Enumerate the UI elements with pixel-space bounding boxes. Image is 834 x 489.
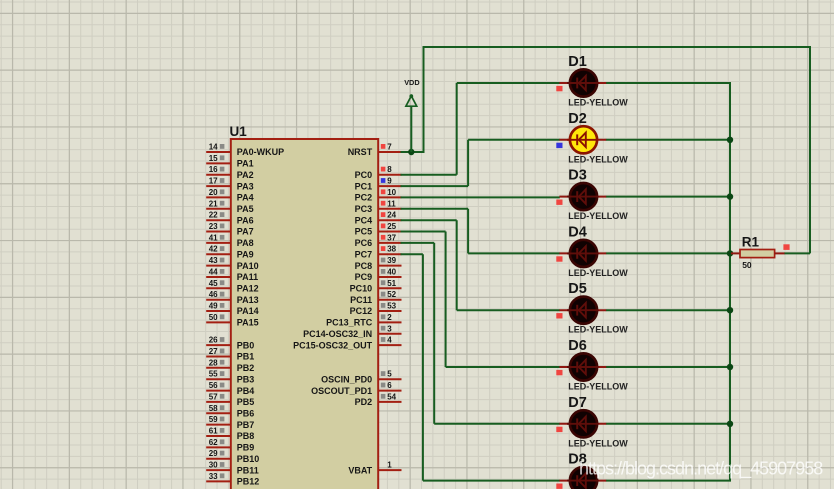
pin PA3 (17) [206,177,253,192]
svg-text:23: 23 [209,222,218,231]
pin PB1 (27) [206,347,254,362]
label R1 [742,235,760,250]
logic-state square D5 [556,313,562,318]
wire D8 to bus [606,480,731,482]
label D7 [568,395,587,411]
svg-text:PC3: PC3 [355,204,373,214]
svg-text:59: 59 [209,415,218,424]
pin PC1 (9) [355,177,402,192]
label D8 [568,452,587,468]
svg-text:PC15-OSC32_OUT: PC15-OSC32_OUT [293,340,373,350]
svg-text:LED-YELLOW: LED-YELLOW [568,154,628,164]
label D5 [568,281,587,297]
svg-text:45: 45 [209,279,218,288]
pin PC3 (11) [355,199,402,214]
svg-text:PB5: PB5 [237,397,255,407]
svg-text:PC5: PC5 [355,227,373,237]
svg-text:PA3: PA3 [237,181,254,191]
wire VDD net up right side: vertical x=423.5 [423,47,425,153]
pin PB8 (61) [206,427,254,442]
pin PA15 (50) [206,313,258,328]
svg-text:PA0-WKUP: PA0-WKUP [237,147,284,157]
pin OSCIN_PD0 (5) [321,370,401,385]
svg-text:VBAT: VBAT [348,465,372,475]
power symbol VDD [404,78,419,106]
svg-text:https://blog.csdn.net/qq_45907: https://blog.csdn.net/qq_45907958 [579,459,823,480]
svg-text:21: 21 [209,199,218,208]
svg-text:PB6: PB6 [237,409,255,419]
pin PC13_RTC (2) [326,313,401,328]
wire VDD net top horizontal [423,46,811,48]
label D2 [568,111,587,127]
svg-text:8: 8 [387,165,392,174]
svg-text:37: 37 [387,233,396,242]
label D6 [568,338,587,354]
svg-text:PC6: PC6 [355,238,373,248]
svg-text:49: 49 [209,302,218,311]
wire PC2 to D3 [401,196,560,198]
pin PA12 (45) [206,279,258,294]
svg-text:33: 33 [209,472,218,481]
pin PC0 (8) [355,165,402,180]
svg-text:PA1: PA1 [237,159,254,169]
svg-text:PC9: PC9 [355,272,373,282]
junction bus D5 [727,307,733,313]
svg-text:14: 14 [209,143,218,152]
pin PA8 (41) [206,233,253,248]
pin PB7 (59) [206,415,254,430]
pin PC9 (40) [355,268,402,283]
wire NRST pin7 to VDD corner [401,151,424,153]
junction bus D3 [727,193,733,199]
wire bus to R1 left lead [731,252,740,254]
wire PC0 to D1 [401,83,560,175]
svg-text:PB10: PB10 [237,454,260,464]
logic-state square D4 [556,256,562,261]
svg-text:NRST: NRST [348,147,373,157]
svg-text:PC1: PC1 [355,181,373,191]
LED D7 [559,410,606,437]
pin PC14-OSC32_IN (3) [303,324,401,339]
svg-text:50: 50 [209,313,218,322]
logic-state square R1 [783,244,789,250]
svg-text:R1: R1 [742,235,760,250]
LED D6 [559,353,606,380]
svg-text:LED-YELLOW: LED-YELLOW [568,98,628,108]
svg-text:PB7: PB7 [237,420,255,430]
label LED-YELLOW (D3) [568,211,628,221]
svg-text:PB8: PB8 [237,431,255,441]
svg-text:3: 3 [387,324,392,333]
svg-text:PC12: PC12 [350,306,373,316]
logic-state square D1 [556,86,562,91]
svg-text:PB4: PB4 [237,386,255,396]
watermark [579,459,823,480]
pin PA5 (21) [206,199,253,214]
pin PC15-OSC32_OUT (4) [293,336,401,351]
svg-text:54: 54 [387,392,396,401]
svg-text:57: 57 [209,392,218,401]
svg-text:38: 38 [387,245,396,254]
pin PB12 (33) [206,472,259,487]
wire junction up to VDD arrow [410,106,412,152]
LED D3 [559,183,606,210]
svg-text:4: 4 [387,336,392,345]
svg-text:PB1: PB1 [237,352,255,362]
svg-text:PA8: PA8 [237,238,254,248]
pin PC5 (25) [355,222,402,237]
svg-text:LED-YELLOW: LED-YELLOW [568,325,628,335]
svg-text:29: 29 [209,449,218,458]
svg-text:11: 11 [387,199,396,208]
svg-text:PA14: PA14 [237,306,259,316]
label LED-YELLOW (D1) [568,98,628,108]
pin PA2 (16) [206,165,253,180]
LED D8 [559,467,606,489]
svg-text:9: 9 [387,177,392,186]
wire D3 to bus [606,196,731,198]
svg-text:58: 58 [209,404,218,413]
svg-text:51: 51 [387,279,396,288]
svg-text:PB0: PB0 [237,340,255,350]
svg-text:PC13_RTC: PC13_RTC [326,318,373,328]
pin PC12 (53) [350,302,402,317]
pin PA10 (43) [206,256,258,271]
svg-text:15: 15 [209,154,218,163]
pin PC8 (39) [355,256,402,271]
svg-text:D2: D2 [568,111,587,127]
pin PA0-WKUP (14) [206,143,284,158]
wire D1 to bus [606,82,731,84]
pin PB2 (28) [206,358,254,373]
wire VDD net right vertical down to R1 [809,46,811,253]
svg-text:10: 10 [387,188,396,197]
svg-text:OSCOUT_PD1: OSCOUT_PD1 [311,386,372,396]
pin PA4 (20) [206,188,253,203]
svg-text:52: 52 [387,290,396,299]
svg-text:LED-YELLOW: LED-YELLOW [568,438,628,448]
value 50 [742,260,752,270]
pin PB9 (62) [206,438,254,453]
junction bus D7 [727,421,733,427]
svg-text:LED-YELLOW: LED-YELLOW [568,382,628,392]
svg-text:40: 40 [387,268,396,277]
pin PA1 (15) [206,154,253,169]
wire D4 to bus [606,252,731,254]
svg-text:53: 53 [387,302,396,311]
svg-text:D7: D7 [568,395,587,411]
label LED-YELLOW (D5) [568,325,628,335]
pin PC2 (10) [355,188,402,203]
wire D6 to bus [606,366,731,368]
svg-text:PC7: PC7 [355,249,373,259]
svg-text:20: 20 [209,188,218,197]
svg-text:PC8: PC8 [355,261,373,271]
svg-text:VDD: VDD [404,78,419,87]
svg-text:D1: D1 [568,54,587,70]
svg-text:44: 44 [209,268,218,277]
svg-text:46: 46 [209,290,218,299]
svg-text:PB9: PB9 [237,443,255,453]
wire PC1 to D2 [401,140,560,186]
svg-text:PA13: PA13 [237,295,259,305]
svg-text:55: 55 [209,370,218,379]
logic-state square D7 [556,427,562,432]
svg-text:27: 27 [209,347,218,356]
wire D7 to bus [606,423,731,425]
label LED-YELLOW (D2) [568,154,628,164]
svg-text:PB11: PB11 [237,465,259,475]
logic-state square D6 [556,370,562,375]
svg-text:D5: D5 [568,281,587,297]
svg-text:26: 26 [209,336,218,345]
label D3 [568,168,587,184]
LED D5 [559,297,606,324]
svg-text:PB12: PB12 [237,477,260,487]
node VDD junction [408,149,414,155]
wire D5 to bus [606,309,731,311]
pin PB3 (55) [206,370,254,385]
svg-text:61: 61 [209,427,218,436]
wire D2 to bus [606,139,731,141]
pin PB11 (30) [206,461,259,476]
svg-text:PA15: PA15 [237,318,259,328]
svg-text:PC14-OSC32_IN: PC14-OSC32_IN [303,329,372,339]
pin PD2 (54) [355,392,402,407]
junction bus D6 [727,364,733,370]
pin PB10 (29) [206,449,259,464]
wire LED bus vertical [729,83,731,481]
pin PB5 (57) [206,392,254,407]
svg-text:PC4: PC4 [355,215,373,225]
pin PA6 (22) [206,211,253,226]
svg-text:39: 39 [387,256,396,265]
svg-text:17: 17 [209,177,218,186]
svg-text:16: 16 [209,165,218,174]
svg-text:1: 1 [387,461,392,470]
pin PC7 (38) [355,245,402,260]
label LED-YELLOW (D6) [568,382,628,392]
pin VBAT (1) [348,461,401,476]
label D1 [568,54,587,70]
svg-text:62: 62 [209,438,218,447]
pin PA13 (46) [206,290,258,305]
svg-text:PA9: PA9 [237,249,254,259]
pin PA11 (44) [206,268,258,283]
svg-text:PB3: PB3 [237,374,255,384]
svg-text:PC2: PC2 [355,193,373,203]
svg-text:OSCIN_PD0: OSCIN_PD0 [321,374,372,384]
pin PB6 (58) [206,404,254,419]
svg-text:PC10: PC10 [350,284,373,294]
svg-text:30: 30 [209,461,218,470]
svg-text:PB2: PB2 [237,363,255,373]
svg-text:PA5: PA5 [237,204,254,214]
chip U1 body [231,139,378,489]
logic-state square D3 [556,200,562,205]
svg-text:43: 43 [209,256,218,265]
label LED-YELLOW (D7) [568,438,628,448]
pin PA14 (49) [206,302,258,317]
pin OSCOUT_PD1 (6) [311,381,401,396]
svg-text:PA6: PA6 [237,215,254,225]
svg-text:D6: D6 [568,338,587,354]
svg-text:LED-YELLOW: LED-YELLOW [568,211,628,221]
reference designator U1 [230,124,248,139]
pin PC6 (37) [355,233,402,248]
svg-text:U1: U1 [230,124,248,139]
label D4 [568,224,587,240]
pin PA7 (23) [206,222,253,237]
svg-text:LED-YELLOW: LED-YELLOW [568,268,628,278]
wire PC6 to D7 [401,243,560,424]
wire PC3 to D4 [401,209,560,254]
svg-text:PA2: PA2 [237,170,254,180]
pin PC11 (52) [350,290,401,305]
LED D2 [559,126,606,153]
pin NRST (7) [348,143,402,158]
wire R1 right lead to vertical [784,252,810,254]
svg-text:50: 50 [742,260,752,270]
LED D1 [559,69,606,96]
wire PC4 to D5 [401,220,560,310]
svg-text:PA11: PA11 [237,272,258,282]
junction bus D4 [727,250,733,256]
svg-text:2: 2 [387,313,392,322]
svg-text:D4: D4 [568,224,587,240]
svg-text:41: 41 [209,233,218,242]
svg-text:6: 6 [387,381,392,390]
svg-text:PC0: PC0 [355,170,373,180]
svg-text:PD2: PD2 [355,397,373,407]
pin PC4 (24) [355,211,402,226]
pin PC10 (51) [350,279,402,294]
pin PB0 (26) [206,336,254,351]
pin PB4 (56) [206,381,254,396]
svg-text:PA12: PA12 [237,284,259,294]
svg-text:7: 7 [387,143,392,152]
pin PA9 (42) [206,245,253,260]
svg-text:24: 24 [387,211,396,220]
svg-text:PA7: PA7 [237,227,254,237]
svg-text:22: 22 [209,211,218,220]
label LED-YELLOW (D4) [568,268,628,278]
svg-text:PC11: PC11 [350,295,372,305]
wire PC5 to D6 [401,232,560,368]
logic-state square D8 [556,484,562,489]
LED D4 [559,240,606,267]
wire PC7 to D8 [401,254,560,480]
junction bus D2 [727,137,733,143]
svg-text:28: 28 [209,358,218,367]
svg-text:D3: D3 [568,168,587,184]
resistor R1 [740,250,785,258]
svg-text:5: 5 [387,370,392,379]
svg-text:56: 56 [209,381,218,390]
svg-text:42: 42 [209,245,218,254]
svg-text:PA4: PA4 [237,193,254,203]
svg-text:PA10: PA10 [237,261,259,271]
svg-text:25: 25 [387,222,396,231]
logic-state square D2 [556,143,562,148]
